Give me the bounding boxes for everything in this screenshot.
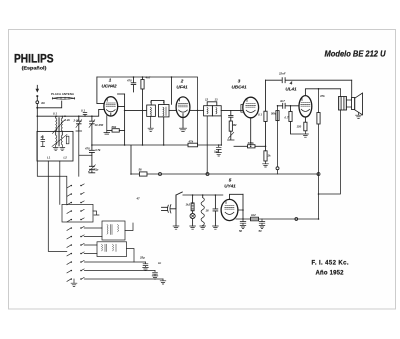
svg-text:Modelo BE 212 U: Modelo BE 212 U xyxy=(325,48,387,58)
svg-text:68k: 68k xyxy=(112,125,117,129)
svg-text:470: 470 xyxy=(126,79,132,83)
svg-text:47k: 47k xyxy=(319,94,325,98)
svg-text:50: 50 xyxy=(239,229,243,233)
svg-text:150: 150 xyxy=(297,125,302,129)
svg-text:UF41: UF41 xyxy=(176,85,188,90)
svg-text:4Ω: 4Ω xyxy=(40,101,46,105)
svg-text:L2: L2 xyxy=(64,156,68,160)
svg-text:0.1: 0.1 xyxy=(258,113,262,117)
svg-text:UL41: UL41 xyxy=(285,87,297,92)
svg-text:4n7: 4n7 xyxy=(279,99,285,103)
svg-text:1n: 1n xyxy=(158,261,162,265)
svg-text:1k2: 1k2 xyxy=(186,203,191,207)
svg-text:50k: 50k xyxy=(271,112,276,116)
svg-text:(Español): (Español) xyxy=(22,66,47,72)
svg-text:0.1: 0.1 xyxy=(53,112,57,116)
svg-text:UBC41: UBC41 xyxy=(231,85,247,90)
svg-text:F. I. 452 Kc.: F. I. 452 Kc. xyxy=(312,261,349,267)
svg-text:2: 2 xyxy=(180,79,184,84)
svg-text:10-450: 10-450 xyxy=(95,123,104,127)
svg-text:4.7k: 4.7k xyxy=(94,148,101,152)
svg-text:4n7: 4n7 xyxy=(145,76,151,80)
svg-text:45: 45 xyxy=(40,135,45,139)
svg-text:56: 56 xyxy=(139,168,143,172)
svg-text:0.1: 0.1 xyxy=(81,109,85,113)
svg-text:0.7: 0.7 xyxy=(285,116,289,120)
svg-text:L1: L1 xyxy=(47,156,51,160)
svg-text:5: 5 xyxy=(229,178,232,183)
svg-text:50: 50 xyxy=(259,229,263,233)
svg-text:16: 16 xyxy=(206,209,210,213)
svg-text:Año 1952: Año 1952 xyxy=(316,271,345,277)
svg-text:4: 4 xyxy=(289,81,293,86)
svg-text:47: 47 xyxy=(136,197,141,201)
svg-text:PHILIPS: PHILIPS xyxy=(14,51,54,65)
svg-text:1: 1 xyxy=(109,78,112,83)
svg-text:13: 13 xyxy=(215,98,219,102)
svg-text:UY41: UY41 xyxy=(224,184,236,189)
svg-text:25p: 25p xyxy=(139,256,145,260)
svg-text:1M: 1M xyxy=(233,123,238,127)
svg-text:1k: 1k xyxy=(268,154,272,158)
svg-text:UCH42: UCH42 xyxy=(101,84,117,89)
svg-text:22nF: 22nF xyxy=(278,72,286,76)
svg-text:1k2: 1k2 xyxy=(251,213,256,217)
svg-text:3: 3 xyxy=(238,79,241,84)
svg-text:PLACA ANTENA: PLACA ANTENA xyxy=(51,92,75,96)
svg-text:12: 12 xyxy=(205,98,209,102)
